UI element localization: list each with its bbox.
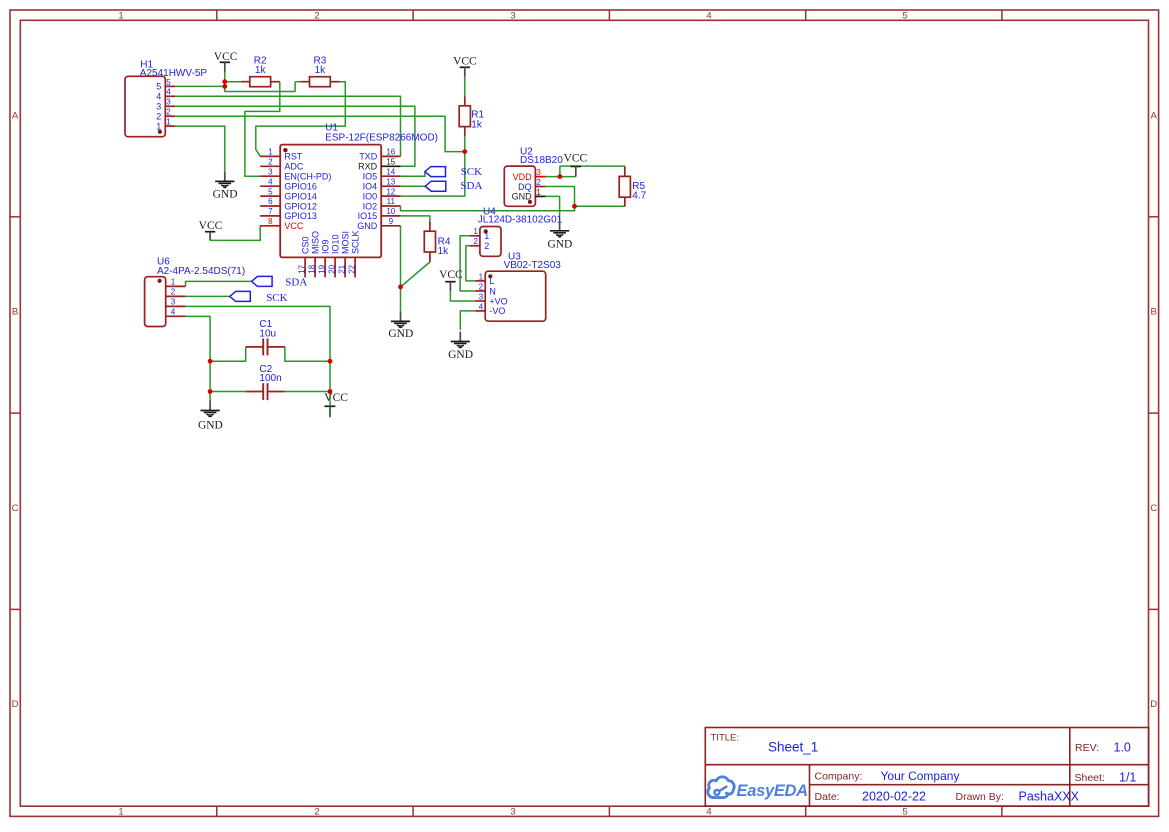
svg-text:4: 4 [171, 308, 176, 317]
svg-text:MOSI: MOSI [341, 231, 351, 254]
svg-text:GND: GND [357, 221, 378, 231]
svg-text:3: 3 [156, 102, 161, 112]
svg-text:D: D [1150, 699, 1157, 710]
svg-text:ESP-12F(ESP8266MOD): ESP-12F(ESP8266MOD) [325, 133, 438, 144]
junction C2 right [328, 389, 333, 394]
connector H1 A2541HWV-5P [125, 60, 207, 137]
junction C2 left [208, 389, 213, 394]
svg-text:A2-4PA-2.54DS(71): A2-4PA-2.54DS(71) [157, 266, 245, 277]
wire U2 DQ pin2 down to junction [545, 187, 574, 207]
wire VCC stem down through junctions to R3 branch [225, 72, 295, 92]
wire U1 IO5 pin14 to SCK flag [401, 172, 425, 177]
wire H1 pin5 to VCC junction [175, 85, 225, 87]
svg-text:A: A [1151, 110, 1158, 121]
wire U1 IO15 pin10 to R4 top [401, 216, 430, 222]
svg-text:2: 2 [473, 237, 478, 246]
svg-text:A2541HWV-5P: A2541HWV-5P [140, 68, 208, 79]
svg-text:3: 3 [171, 298, 176, 307]
wire VDD junction up and over to R5 top [560, 166, 625, 177]
svg-text:N: N [489, 286, 496, 296]
svg-text:4: 4 [706, 806, 711, 817]
wire junction down to U1 IO0 pin12 [401, 152, 465, 197]
svg-text:20: 20 [328, 264, 337, 273]
svg-text:L: L [489, 276, 494, 286]
svg-text:GND: GND [198, 419, 223, 431]
svg-text:GND: GND [448, 349, 473, 361]
wire C1 left branch [210, 347, 246, 361]
svg-text:RXD: RXD [358, 162, 378, 172]
svg-text:SCK: SCK [266, 292, 287, 304]
svg-text:4.7: 4.7 [632, 191, 646, 202]
svg-text:SCK: SCK [461, 166, 482, 178]
resistor R4 [424, 222, 451, 262]
svg-text:IO15: IO15 [358, 211, 378, 221]
svg-text:5: 5 [156, 82, 161, 92]
svg-text:1: 1 [473, 227, 478, 236]
svg-text:2: 2 [484, 241, 489, 251]
svg-text:SDA: SDA [285, 276, 307, 288]
svg-text:8: 8 [268, 217, 273, 226]
wire U3 -VO pin4 to GND [460, 311, 475, 330]
IC U4 JL124D-38102G01 [470, 206, 563, 256]
svg-text:1.0: 1.0 [1114, 741, 1131, 755]
wire C2 row right [285, 391, 330, 393]
svg-text:IO0: IO0 [363, 191, 378, 201]
junction DQ/R5/IO2 [572, 204, 577, 209]
IC U3 VB02-T2S03 [475, 252, 561, 322]
ground at U2 pin1 [547, 221, 572, 251]
svg-text:Sheet:: Sheet: [1075, 772, 1105, 784]
svg-text:17: 17 [298, 264, 307, 273]
wire H1 pin4 to U1 TXD pin16 [175, 96, 400, 156]
svg-text:13: 13 [386, 177, 395, 186]
resistor R3 [300, 55, 339, 86]
svg-text:16: 16 [386, 148, 395, 157]
svg-text:Your Company: Your Company [881, 769, 960, 783]
svg-text:Drawn By:: Drawn By: [956, 791, 1004, 803]
svg-text:A: A [12, 110, 19, 121]
svg-text:5: 5 [902, 806, 907, 817]
wire VCC junction to R2 left [225, 81, 241, 83]
svg-text:10: 10 [386, 207, 395, 216]
svg-text:REV:: REV: [1075, 742, 1099, 754]
svg-text:12: 12 [386, 187, 395, 196]
svg-text:VDD: VDD [513, 172, 533, 182]
svg-text:4: 4 [706, 10, 711, 21]
wire H1 pin3 to U1 RXD pin15 [175, 106, 415, 166]
ground at H1 pin1 [213, 171, 238, 200]
wire H1 pin1 to GND [175, 126, 225, 171]
capacitor C1 10u [246, 319, 285, 355]
wire U1 GND pin9 down to GND [400, 226, 402, 312]
svg-text:22: 22 [348, 264, 357, 273]
ground at U1 pin9 / R4 [388, 311, 413, 340]
wire H1 pin2 to R1 junction [175, 116, 465, 151]
VCC flag at U2 VDD [564, 152, 588, 176]
IC U2 DS18B20 [504, 146, 563, 206]
svg-text:4: 4 [166, 88, 171, 97]
svg-text:2: 2 [479, 282, 484, 291]
svg-text:10u: 10u [259, 328, 276, 339]
svg-text:VCC: VCC [453, 55, 477, 67]
svg-text:2020-02-22: 2020-02-22 [862, 790, 926, 804]
svg-text:1/1: 1/1 [1119, 770, 1136, 784]
wire C2 row left [210, 391, 246, 393]
wire R5 bottom to DQ junction [575, 197, 625, 206]
wire U4 pin2 to U3 pin1 [466, 246, 475, 281]
svg-text:CS0: CS0 [301, 236, 311, 254]
wire U1 VCC pin8 to VCC flag [210, 226, 260, 241]
svg-text:1: 1 [118, 10, 123, 21]
svg-text:3: 3 [536, 168, 541, 177]
svg-text:GPIO16: GPIO16 [284, 182, 317, 192]
svg-text:IO10: IO10 [331, 234, 341, 254]
svg-text:DQ: DQ [518, 182, 532, 192]
svg-text:VCC: VCC [439, 269, 463, 281]
wire VCC to U3 +VO pin3 [450, 291, 475, 301]
svg-text:2: 2 [536, 178, 541, 187]
svg-text:3: 3 [268, 167, 273, 176]
svg-text:B: B [12, 307, 18, 318]
svg-text:Sheet_1: Sheet_1 [768, 740, 818, 755]
EasyEDA logo [708, 777, 808, 800]
junction H1 pin5/VCC upper [222, 79, 227, 84]
svg-text:Date:: Date: [815, 791, 840, 803]
net flag SDA at U1 IO4 [425, 180, 482, 192]
ground at U3 pin4 [448, 332, 473, 361]
svg-text:21: 21 [338, 264, 347, 273]
svg-text:EN(CH-PD): EN(CH-PD) [284, 172, 331, 182]
svg-text:IO2: IO2 [363, 201, 378, 211]
svg-text:GPIO14: GPIO14 [284, 191, 317, 201]
svg-text:TITLE:: TITLE: [711, 733, 740, 744]
svg-text:PashaXXX: PashaXXX [1019, 790, 1080, 804]
resistor R5 [619, 167, 646, 207]
junction U2 VDD [558, 174, 563, 179]
wire U6 pin3 to VCC rail [186, 306, 331, 417]
VCC flag top-left [214, 51, 238, 72]
svg-text:GND: GND [547, 238, 572, 250]
svg-text:3: 3 [510, 806, 515, 817]
svg-text:14: 14 [386, 167, 395, 176]
svg-text:5: 5 [902, 10, 907, 21]
svg-text:1: 1 [166, 118, 171, 127]
svg-text:Company:: Company: [815, 771, 863, 783]
svg-text:3: 3 [166, 98, 171, 107]
svg-text:RST: RST [284, 152, 303, 162]
net flag SCK at U1 IO5 [425, 166, 482, 178]
svg-text:C: C [12, 503, 19, 514]
svg-text:C: C [1150, 503, 1157, 514]
svg-text:VB02-T2S03: VB02-T2S03 [504, 260, 562, 271]
wire R3 left lead connect [295, 81, 300, 83]
junction R1 bottom [462, 149, 467, 154]
junction H1 pin5/VCC lower [222, 84, 227, 89]
wire U6 pin2 to SCK flag [186, 295, 230, 297]
svg-text:-VO: -VO [489, 306, 505, 316]
svg-text:19: 19 [318, 264, 327, 273]
svg-text:2: 2 [314, 806, 319, 817]
svg-text:1: 1 [484, 231, 489, 241]
wire U4 pin1 to U3 pin2 [460, 236, 475, 291]
wire U2 GND pin1 to GND [545, 196, 559, 220]
svg-text:VCC: VCC [284, 221, 304, 231]
svg-text:D: D [12, 699, 19, 710]
VCC flag inverted at C1/C2 rail [324, 392, 348, 417]
svg-text:IO9: IO9 [321, 239, 331, 254]
svg-text:2: 2 [166, 108, 171, 117]
svg-text:IO4: IO4 [363, 182, 378, 192]
resistor R1 [459, 96, 484, 136]
svg-text:SCLK: SCLK [351, 230, 361, 254]
svg-text:100n: 100n [259, 373, 281, 384]
svg-text:GPIO12: GPIO12 [284, 201, 317, 211]
wire R2 right down-left to U1 EN(CH-PD) pin3 [245, 82, 280, 177]
svg-text:2: 2 [268, 158, 273, 167]
svg-text:MISO: MISO [311, 231, 321, 254]
svg-text:TXD: TXD [359, 152, 378, 162]
svg-text:ADC: ADC [284, 162, 304, 172]
svg-text:1k: 1k [255, 65, 267, 76]
wire U6 pin1 to SDA flag [186, 281, 252, 286]
svg-text:1k: 1k [438, 246, 450, 257]
svg-text:IO5: IO5 [363, 172, 378, 182]
svg-text:5: 5 [166, 78, 171, 87]
svg-text:6: 6 [268, 197, 273, 206]
junction C1 left [208, 359, 213, 364]
VCC flag at U1 pin8 [199, 220, 223, 240]
capacitor C2 100n [246, 364, 285, 400]
net flag SDA at U6 pin1 [252, 276, 308, 288]
svg-text:7: 7 [268, 207, 273, 216]
svg-text:18: 18 [308, 264, 317, 273]
svg-text:B: B [1151, 307, 1157, 318]
resistor R2 [241, 55, 280, 86]
svg-text:+VO: +VO [489, 296, 507, 306]
junction R4/GND [398, 285, 403, 290]
net flag SCK at U6 pin2 [230, 291, 288, 304]
svg-text:1: 1 [268, 148, 273, 157]
wire R3 right to U1 RST pin1 [256, 82, 345, 157]
svg-text:GND: GND [512, 192, 533, 202]
wire U6 pin4 down to GND rail [186, 316, 211, 400]
svg-text:GND: GND [388, 328, 413, 340]
svg-text:VCC: VCC [199, 220, 223, 232]
wire R1 bottom to junction [464, 136, 466, 151]
svg-text:VCC: VCC [214, 51, 238, 63]
wire U1 IO2 pin11 to DQ junction [401, 206, 575, 211]
svg-text:5: 5 [268, 187, 273, 196]
svg-text:4: 4 [156, 92, 161, 102]
svg-text:EasyEDA: EasyEDA [737, 782, 808, 800]
svg-text:1k: 1k [315, 65, 327, 76]
svg-text:2: 2 [156, 112, 161, 122]
svg-text:1: 1 [536, 188, 541, 197]
svg-text:GND: GND [213, 189, 238, 201]
svg-text:15: 15 [386, 158, 395, 167]
ground at U6 pin4 rail [198, 401, 223, 432]
svg-text:DS18B20: DS18B20 [520, 155, 563, 166]
svg-text:1k: 1k [471, 119, 483, 130]
svg-text:11: 11 [387, 197, 396, 206]
title block [705, 728, 1148, 807]
VCC flag above R1 [453, 55, 477, 76]
svg-text:3: 3 [479, 292, 484, 301]
svg-text:1: 1 [118, 806, 123, 817]
IC U1 ESP-12F(ESP8266MOD) [260, 123, 438, 278]
svg-text:GPIO13: GPIO13 [284, 211, 317, 221]
svg-text:2: 2 [171, 288, 176, 297]
svg-text:1: 1 [479, 272, 484, 281]
connector U6 A2-4PA-2.54DS(71) [145, 257, 246, 327]
svg-text:9: 9 [389, 217, 394, 226]
svg-text:VCC: VCC [324, 392, 348, 404]
wire R4 bottom diagonal to GND junction [401, 262, 430, 287]
wire U2 VDD pin3 to VCC junction [545, 176, 575, 178]
svg-text:4: 4 [479, 302, 484, 311]
svg-text:SDA: SDA [460, 180, 482, 192]
svg-text:3: 3 [510, 10, 515, 21]
VCC flag at U3 [439, 269, 463, 291]
svg-text:2: 2 [314, 10, 319, 21]
wire VCC to R1 top [464, 77, 466, 97]
wire C1 right branch [285, 347, 330, 361]
junction C1 right [328, 359, 333, 364]
svg-text:VCC: VCC [564, 152, 588, 164]
wire U1 IO4 pin13 to SDA flag [401, 185, 426, 187]
svg-text:4: 4 [268, 177, 273, 186]
svg-text:JL124D-38102G01: JL124D-38102G01 [478, 215, 563, 226]
svg-text:1: 1 [171, 278, 176, 287]
